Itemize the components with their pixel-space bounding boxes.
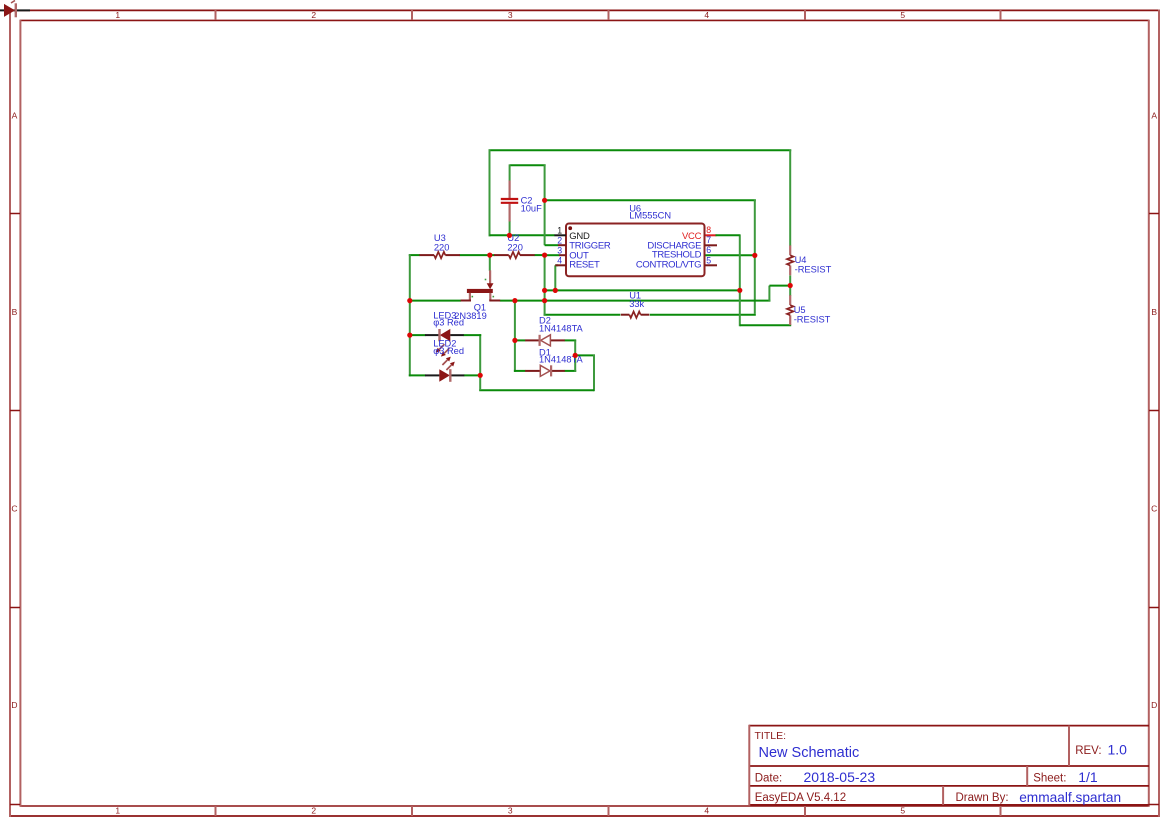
wire — [769, 285, 790, 287]
wire — [789, 149, 791, 245]
svg-text:1: 1 — [115, 10, 120, 20]
junction — [573, 353, 578, 358]
junction — [407, 298, 412, 303]
svg-text:B: B — [1151, 307, 1157, 317]
svg-text:4: 4 — [557, 256, 562, 266]
wire — [705, 254, 755, 256]
wire — [789, 275, 791, 296]
wire — [509, 164, 511, 180]
wire — [534, 254, 544, 256]
LED LED1 (partial, at sheet origin) — [0, 1, 30, 18]
svg-text:emmaalf.spartan: emmaalf.spartan — [1019, 790, 1121, 805]
pin 1 stub (GND) — [554, 234, 566, 236]
junction — [788, 283, 793, 288]
svg-text:REV:: REV: — [1075, 745, 1101, 757]
svg-text:2: 2 — [311, 10, 316, 20]
svg-text:8: 8 — [706, 225, 711, 235]
svg-text:3: 3 — [508, 806, 513, 816]
wire — [544, 314, 621, 316]
ruler row letters right — [1151, 111, 1157, 711]
wire — [489, 255, 491, 271]
resistor U4 — [787, 245, 793, 275]
svg-text:1: 1 — [115, 806, 120, 816]
wire — [545, 289, 740, 291]
pin 4 stub — [555, 264, 566, 266]
wire — [754, 199, 756, 313]
wire — [489, 149, 792, 151]
svg-text:CONTROL/VTG: CONTROL/VTG — [636, 259, 701, 270]
svg-text:RESET: RESET — [569, 260, 600, 271]
LED LED3 — [425, 329, 464, 357]
wire — [705, 234, 717, 236]
svg-text:2: 2 — [557, 236, 562, 246]
pin 3 stub — [559, 254, 566, 256]
svg-text:Drawn By:: Drawn By: — [956, 792, 1009, 804]
wire — [479, 334, 481, 390]
svg-text:2018-05-23: 2018-05-23 — [804, 769, 876, 785]
svg-text:φ3 Red: φ3 Red — [433, 346, 464, 356]
wire — [489, 149, 491, 236]
svg-text:5: 5 — [706, 255, 711, 265]
wire — [545, 254, 560, 256]
svg-text:U4: U4 — [795, 255, 807, 265]
wire — [564, 339, 576, 341]
svg-text:LM555CN: LM555CN — [629, 210, 671, 220]
svg-text:D: D — [1151, 700, 1157, 710]
wire — [514, 339, 526, 341]
wire — [545, 199, 756, 201]
svg-text:A: A — [1151, 111, 1157, 121]
svg-text:1/1: 1/1 — [1078, 769, 1098, 785]
wire — [555, 264, 558, 266]
wire — [500, 300, 771, 302]
wire — [544, 164, 546, 245]
svg-text:φ3 Red: φ3 Red — [433, 318, 464, 328]
svg-text:7: 7 — [706, 235, 711, 245]
wire — [564, 370, 576, 372]
svg-text:EasyEDA V5.4.12: EasyEDA V5.4.12 — [755, 792, 846, 804]
junction — [507, 233, 512, 238]
svg-text:5: 5 — [900, 10, 905, 20]
junction — [737, 288, 742, 293]
wire — [768, 286, 770, 302]
wire — [463, 334, 481, 336]
frame row ticks right — [1149, 214, 1159, 805]
frame column ticks bottom — [216, 806, 1001, 816]
transistor Q1 — [461, 270, 501, 300]
junction — [542, 288, 547, 293]
wire — [514, 300, 516, 372]
frame column ticks top — [216, 10, 1001, 20]
svg-text:10uF: 10uF — [521, 204, 543, 214]
svg-text:3: 3 — [508, 10, 513, 20]
svg-text:1: 1 — [557, 226, 562, 236]
junction — [542, 198, 547, 203]
svg-text:New Schematic: New Schematic — [759, 745, 860, 761]
diode D1 — [525, 365, 565, 376]
svg-text:Date:: Date: — [755, 772, 783, 784]
capacitor C2 — [501, 181, 518, 222]
wire — [554, 265, 556, 290]
wire — [464, 374, 481, 376]
resistor U3 — [419, 252, 460, 258]
junction — [478, 373, 483, 378]
wire — [479, 389, 594, 391]
resistor U2 — [494, 252, 535, 258]
wire — [490, 234, 555, 236]
svg-text:D: D — [11, 700, 17, 710]
wire — [460, 254, 495, 256]
svg-text:5: 5 — [900, 806, 905, 816]
ruler column numbers bottom — [115, 806, 905, 816]
junction — [542, 298, 547, 303]
junction — [542, 253, 547, 258]
svg-text:1N4148TA: 1N4148TA — [539, 324, 584, 334]
resistor U1 — [621, 312, 650, 318]
svg-text:-RESIST: -RESIST — [795, 265, 832, 275]
svg-text:4: 4 — [704, 806, 709, 816]
wire — [574, 340, 576, 356]
wire — [574, 355, 576, 372]
op-amp U6 LM555CN box — [566, 224, 705, 277]
wire — [509, 221, 511, 236]
svg-text:1.0: 1.0 — [1108, 741, 1128, 757]
LED LED2 — [425, 357, 464, 382]
ruler row letters left — [11, 111, 17, 711]
wire — [409, 374, 426, 376]
frame row ticks left — [10, 214, 20, 805]
wire — [716, 234, 740, 236]
svg-text:A: A — [12, 111, 18, 121]
svg-text:C: C — [11, 504, 17, 514]
svg-text:3: 3 — [557, 246, 562, 256]
wire — [514, 370, 526, 372]
svg-text:4: 4 — [704, 10, 709, 20]
pin 2 stub — [558, 244, 566, 246]
svg-text:Sheet:: Sheet: — [1033, 772, 1066, 784]
wire — [409, 254, 420, 256]
svg-text:6: 6 — [706, 245, 711, 255]
junction — [407, 333, 412, 338]
junction — [512, 338, 517, 343]
svg-text:220: 220 — [434, 242, 450, 252]
junction — [553, 288, 558, 293]
resistor U5 — [787, 295, 793, 325]
svg-text:-RESIST: -RESIST — [794, 315, 831, 325]
title block — [749, 725, 1149, 806]
wire — [740, 324, 791, 326]
svg-text:TITLE:: TITLE: — [755, 730, 787, 742]
pin 5 stub — [705, 264, 718, 266]
wire — [739, 234, 741, 326]
wire — [409, 334, 426, 336]
svg-text:B: B — [12, 307, 18, 317]
svg-text:220: 220 — [507, 242, 523, 252]
wire — [409, 300, 461, 302]
pin 7 stub — [705, 244, 718, 246]
wire — [510, 164, 546, 166]
svg-text:C: C — [1151, 504, 1157, 514]
junction — [752, 253, 757, 258]
svg-text:U5: U5 — [794, 305, 806, 315]
ruler column numbers top — [115, 10, 905, 20]
wire — [544, 255, 546, 316]
junction — [512, 298, 517, 303]
diode D2 — [525, 335, 565, 346]
wire — [575, 354, 595, 356]
svg-text:2: 2 — [311, 806, 316, 816]
wire — [650, 314, 756, 316]
wire — [593, 354, 595, 391]
svg-text:33k: 33k — [629, 299, 644, 309]
wire — [409, 254, 411, 376]
wire — [545, 244, 559, 246]
junction — [487, 253, 492, 258]
